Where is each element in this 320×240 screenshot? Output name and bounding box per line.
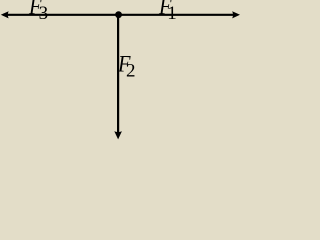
svg-text:3: 3	[39, 3, 49, 24]
arrowhead of F2 (down)	[114, 131, 122, 139]
wire: vertical force line (F2)	[117, 15, 119, 134]
node: junction dot	[115, 11, 122, 18]
arrowhead of F1 (right)	[232, 11, 240, 18]
arrowhead of F3 (left)	[1, 11, 9, 18]
wire: horizontal force line (F3 to F1)	[3, 14, 237, 16]
svg-text:2: 2	[126, 61, 136, 82]
svg-text:1: 1	[167, 3, 177, 24]
